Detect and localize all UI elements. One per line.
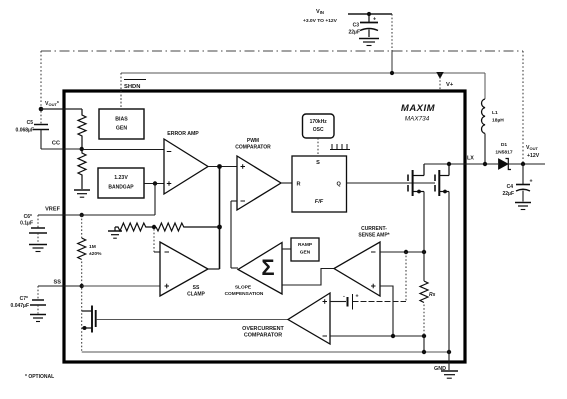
- wire PWM output to F/F R: [281, 182, 292, 184]
- junction SS: [80, 284, 84, 288]
- wire SHDN drop into IC: [120, 73, 122, 109]
- svg-text:SENSE AMP*: SENSE AMP*: [358, 233, 389, 239]
- wire SS clamp output to comp node: [208, 268, 220, 270]
- transistor Q-ss (soft-start discharge FET): [82, 306, 96, 333]
- svg-text:C5: C5: [27, 120, 34, 126]
- resistor divider bottom R: [78, 149, 86, 189]
- svg-text:+3.0V TO +12V: +3.0V TO +12V: [303, 18, 338, 24]
- wire VIN horizontal: [348, 13, 392, 15]
- svg-text:CURRENT-: CURRENT-: [361, 226, 387, 232]
- svg-text:C4: C4: [507, 184, 514, 190]
- op-amp SS CLAMP: [160, 242, 208, 296]
- junction Rs bottom: [422, 334, 426, 338]
- wire CC to error amp inverting input: [82, 149, 164, 151]
- junction comp mid: [152, 225, 156, 229]
- svg-text:+: +: [530, 179, 533, 185]
- wire overcurrent comparator output to Q-ss gate: [97, 319, 288, 321]
- svg-text:SHDN: SHDN: [124, 84, 140, 90]
- svg-text:1N5817: 1N5817: [495, 150, 512, 156]
- wire Q1 source to Rs: [423, 192, 425, 253]
- svg-text:PWM: PWM: [247, 138, 259, 144]
- ground of C7: [30, 315, 46, 322]
- wire SHDN to bias gen: [120, 91, 122, 109]
- battery offset source: [330, 294, 406, 310]
- svg-text:L1: L1: [492, 110, 498, 116]
- svg-text:-: -: [343, 294, 345, 300]
- svg-text:0.068µF: 0.068µF: [16, 128, 34, 134]
- svg-text:OSC: OSC: [313, 127, 324, 133]
- node compensation: [217, 225, 222, 230]
- svg-text:BIAS: BIAS: [115, 117, 128, 123]
- transistor Q2 power FET: [435, 164, 449, 196]
- wire SHDN/V+ rail: [121, 72, 485, 74]
- wire Q2 source to ground rail: [448, 192, 450, 353]
- wire rail down to L1: [484, 73, 486, 99]
- wire comp mid to SS clamp - input: [153, 229, 155, 252]
- wire C5 to CC pin: [41, 148, 82, 150]
- svg-text:C3: C3: [353, 23, 360, 29]
- svg-text:CC: CC: [52, 141, 60, 147]
- wire SS pin: [38, 285, 82, 287]
- svg-text:+: +: [373, 17, 376, 23]
- svg-text:BANDGAP: BANDGAP: [108, 185, 134, 191]
- summer slope compensation: [238, 243, 282, 295]
- op-amp OVERCURRENT COMPARATOR: [288, 293, 330, 344]
- svg-text:Σ: Σ: [261, 255, 274, 280]
- svg-text:V+: V+: [446, 82, 454, 88]
- resistor comp R1 (horizontal): [115, 223, 152, 231]
- wire SS discharge dotted: [81, 288, 83, 352]
- wire current sense + input: [380, 286, 393, 336]
- junction ground rail / Rs: [422, 350, 426, 354]
- svg-text:0.1µF: 0.1µF: [20, 221, 33, 227]
- svg-text:VOUT: VOUT: [526, 145, 538, 151]
- ground of GND pin: [441, 371, 458, 378]
- svg-text:±20%: ±20%: [89, 251, 102, 257]
- ground of C3: [359, 39, 379, 46]
- block BIAS GEN U-bias: [99, 109, 144, 139]
- wire VREF pin: [38, 214, 82, 216]
- ground of C4: [515, 203, 531, 210]
- transistor Q1 power FET: [408, 164, 424, 196]
- svg-text:S: S: [316, 160, 320, 166]
- node error amp output: [217, 164, 222, 169]
- wire drains to LX: [424, 163, 465, 165]
- IC: [64, 91, 465, 378]
- capacitor C6: [29, 215, 47, 244]
- wire optional feedback VOUT to VOUT* (dash-dot): [41, 50, 523, 52]
- wire compensation node riser: [219, 167, 221, 270]
- svg-text:F/F: F/F: [315, 199, 324, 205]
- svg-text:C7*: C7*: [20, 296, 28, 302]
- pin label SHDN: [124, 79, 146, 81]
- svg-text:COMPENSATION: COMPENSATION: [225, 291, 264, 297]
- wire offset to sense - node (dotted): [405, 252, 407, 302]
- svg-text:LX: LX: [467, 156, 474, 162]
- block F/F flip-flop: [292, 156, 347, 212]
- wire SS to clamp + input: [82, 285, 160, 287]
- svg-text:ERROR AMP: ERROR AMP: [167, 131, 199, 137]
- ground of compensation network: [108, 227, 122, 238]
- pin GND stem: [448, 352, 450, 370]
- wire OSC to F/F S: [317, 138, 319, 156]
- svg-text:MAXIM: MAXIM: [401, 103, 436, 114]
- svg-text:OVERCURRENT: OVERCURRENT: [242, 326, 284, 332]
- clock pulse marks: [330, 144, 350, 150]
- junction VIN/C3: [367, 12, 371, 16]
- RIGHT: [465, 99, 545, 210]
- LEFT: [11, 101, 82, 380]
- svg-text:170kHz: 170kHz: [310, 119, 328, 125]
- wire VREF riser: [154, 184, 156, 216]
- resistor 1M soft-start pullup: [81, 215, 83, 238]
- svg-text:22µF: 22µF: [349, 30, 361, 36]
- junction CC / divider tap: [80, 147, 84, 151]
- wire overcurrent - input from Rs bottom: [330, 335, 424, 337]
- wire internal ground rail: [82, 351, 449, 353]
- ground of divider: [74, 190, 90, 197]
- ground of C6: [29, 245, 47, 252]
- wire D1 to VOUT: [508, 163, 545, 165]
- svg-text:COMPARATOR: COMPARATOR: [235, 145, 271, 151]
- capacitor C5: [33, 111, 49, 149]
- wire current sense - input: [380, 251, 424, 253]
- svg-text:GEN: GEN: [300, 250, 311, 256]
- wire LX node: [465, 163, 498, 165]
- junction VREF: [80, 213, 84, 217]
- diode D1 1N5817: [499, 159, 512, 170]
- wire dotted VOUT output drop: [522, 51, 524, 162]
- wire VIN down to rail: [391, 14, 393, 51]
- svg-text:VREF: VREF: [45, 207, 61, 213]
- block 1.23V BANDGAP: [98, 168, 144, 198]
- IC MAX734 package outline: [64, 91, 465, 362]
- wire PWM - input from slope comp: [231, 200, 237, 202]
- wire L1 to LX: [484, 134, 486, 165]
- junction LX / Q2 drain: [447, 162, 451, 166]
- wire Q output to gates: [347, 182, 436, 184]
- junction sense - / offset tap: [404, 250, 408, 254]
- junction bandgap/VREF: [153, 181, 157, 185]
- wire VOUT* pin: [41, 108, 82, 110]
- svg-text:SLOPE: SLOPE: [235, 285, 252, 291]
- node VOUT: [521, 162, 525, 166]
- svg-text:1.23V: 1.23V: [114, 175, 128, 181]
- junction sense - / Rs top: [422, 250, 426, 254]
- svg-text:C6*: C6*: [24, 214, 32, 220]
- wire dotted VOUT* drop: [40, 51, 42, 107]
- svg-text:Q: Q: [337, 182, 342, 188]
- svg-text:22µF: 22µF: [503, 191, 515, 197]
- EXTERNALS-TOP: [41, 9, 523, 162]
- svg-text:VOUT*: VOUT*: [45, 101, 60, 107]
- wire V+ drop into IC: [439, 73, 441, 91]
- svg-text:* OPTIONAL: * OPTIONAL: [25, 374, 54, 380]
- svg-text:SS: SS: [54, 280, 62, 286]
- capacitor C3: [360, 14, 378, 37]
- svg-text:R: R: [297, 182, 301, 188]
- svg-text:RAMP: RAMP: [298, 242, 313, 248]
- junction rail/VIN: [390, 71, 394, 75]
- junction LX / L1: [483, 162, 487, 166]
- junction rail/V+ (arrow): [436, 72, 443, 79]
- resistor Rs current sense: [423, 252, 425, 281]
- svg-text:MAX734: MAX734: [405, 116, 430, 123]
- wire bandgap to error amp +: [144, 183, 164, 185]
- svg-text:CLAMP: CLAMP: [187, 292, 205, 298]
- wire error amp output to PWM +: [208, 166, 237, 168]
- wire current sense to summer: [282, 269, 334, 286]
- resistor comp R2 (horizontal): [156, 223, 220, 231]
- block 170kHz OSC: [303, 114, 335, 138]
- svg-text:0.047µF: 0.047µF: [11, 303, 29, 309]
- svg-text:D1: D1: [501, 142, 508, 148]
- wire ramp gen to summer: [282, 248, 291, 250]
- junction ground rail / GND pin: [447, 350, 451, 354]
- svg-text:+12V: +12V: [527, 153, 540, 159]
- svg-text:18µH: 18µH: [492, 118, 504, 124]
- svg-text:COMPARATOR: COMPARATOR: [244, 333, 282, 339]
- svg-text:GEN: GEN: [116, 126, 127, 132]
- resistor divider top R: [78, 109, 86, 149]
- svg-text:1M: 1M: [89, 244, 96, 250]
- junction sense + / overcurrent -: [391, 334, 395, 338]
- capacitor C4: [516, 164, 533, 202]
- svg-text:+: +: [356, 294, 359, 300]
- node VOUT*: [39, 107, 44, 112]
- capacitor C7: [30, 286, 46, 314]
- svg-text:SS: SS: [193, 285, 200, 291]
- svg-text:Rs: Rs: [429, 292, 436, 298]
- block RAMP GEN: [291, 238, 319, 261]
- svg-text:VIN: VIN: [316, 9, 324, 15]
- inductor L1: [482, 99, 485, 133]
